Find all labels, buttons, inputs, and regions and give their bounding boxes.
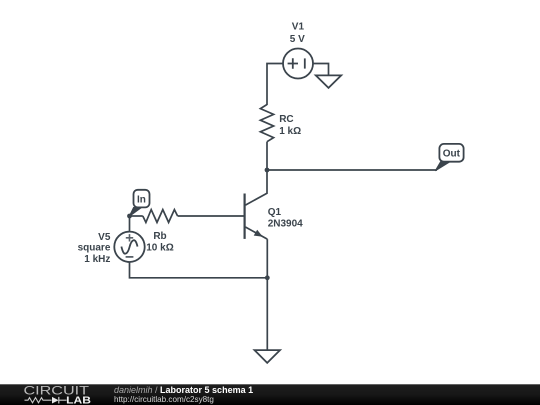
Out flag box bbox=[439, 144, 463, 162]
wire V1 left to rail bbox=[267, 64, 283, 106]
svg-text:1 kHz: 1 kHz bbox=[84, 254, 110, 265]
svg-text:Rb: Rb bbox=[153, 231, 166, 242]
V1 minus bar bbox=[304, 58, 306, 68]
svg-text:http://circuitlab.com/c2sy8tg: http://circuitlab.com/c2sy8tg bbox=[114, 395, 214, 404]
svg-text:RC: RC bbox=[279, 114, 293, 125]
In flag box bbox=[134, 190, 150, 208]
node collector junction bbox=[265, 168, 270, 173]
svg-text:Out: Out bbox=[443, 149, 461, 160]
footer black bar bbox=[0, 384, 540, 405]
svg-text:square: square bbox=[78, 243, 111, 254]
Q1 emitter arrow bbox=[254, 230, 263, 237]
V5 sine wave bbox=[121, 240, 137, 254]
Q1 emitter diagonal bbox=[245, 227, 267, 239]
svg-text:LAB: LAB bbox=[66, 395, 91, 405]
svg-text:10 kΩ: 10 kΩ bbox=[146, 242, 173, 253]
logo resistor zigzag bbox=[25, 398, 52, 403]
svg-text:danielmih / Laborator 5 schema: danielmih / Laborator 5 schema 1 bbox=[114, 385, 253, 395]
wire V5 bottom to emitter node bbox=[130, 262, 268, 278]
Out flag tail bbox=[435, 161, 450, 171]
source V5 circle bbox=[114, 232, 144, 262]
wire node to Out flag bbox=[267, 169, 437, 171]
In flag tail bbox=[129, 207, 142, 216]
resistor RC zigzag bbox=[260, 105, 273, 142]
svg-text:Q1: Q1 bbox=[268, 207, 282, 218]
svg-text:2N3904: 2N3904 bbox=[268, 218, 303, 229]
wire emitter down to ground bbox=[266, 239, 268, 350]
svg-text:1 kΩ: 1 kΩ bbox=[279, 126, 301, 137]
V5 minus sign bbox=[126, 256, 134, 258]
node emitter junction bbox=[265, 275, 270, 280]
V1 plus sign bbox=[288, 58, 298, 68]
transistor Q1 base bar bbox=[244, 194, 246, 239]
ground symbol bottom bbox=[255, 350, 281, 363]
svg-text:V5: V5 bbox=[98, 232, 111, 243]
resistor Rb zigzag bbox=[143, 210, 178, 223]
voltage source V1 circle bbox=[283, 49, 313, 79]
logo diode bbox=[52, 397, 59, 404]
ground symbol at V1 bbox=[316, 75, 341, 88]
wire node to V5 top bbox=[129, 216, 131, 232]
V5 plus sign bbox=[126, 234, 133, 241]
wire base to Rb bbox=[178, 215, 245, 217]
wire V1 right to ground bbox=[313, 64, 329, 76]
svg-text:In: In bbox=[137, 195, 146, 206]
node base junction bbox=[127, 214, 132, 219]
wire node down to collector bbox=[245, 170, 267, 205]
wire Rb to node bbox=[130, 215, 143, 217]
svg-text:5 V: 5 V bbox=[290, 34, 305, 45]
svg-text:V1: V1 bbox=[292, 22, 305, 33]
wire RC bottom to node bbox=[266, 142, 268, 170]
